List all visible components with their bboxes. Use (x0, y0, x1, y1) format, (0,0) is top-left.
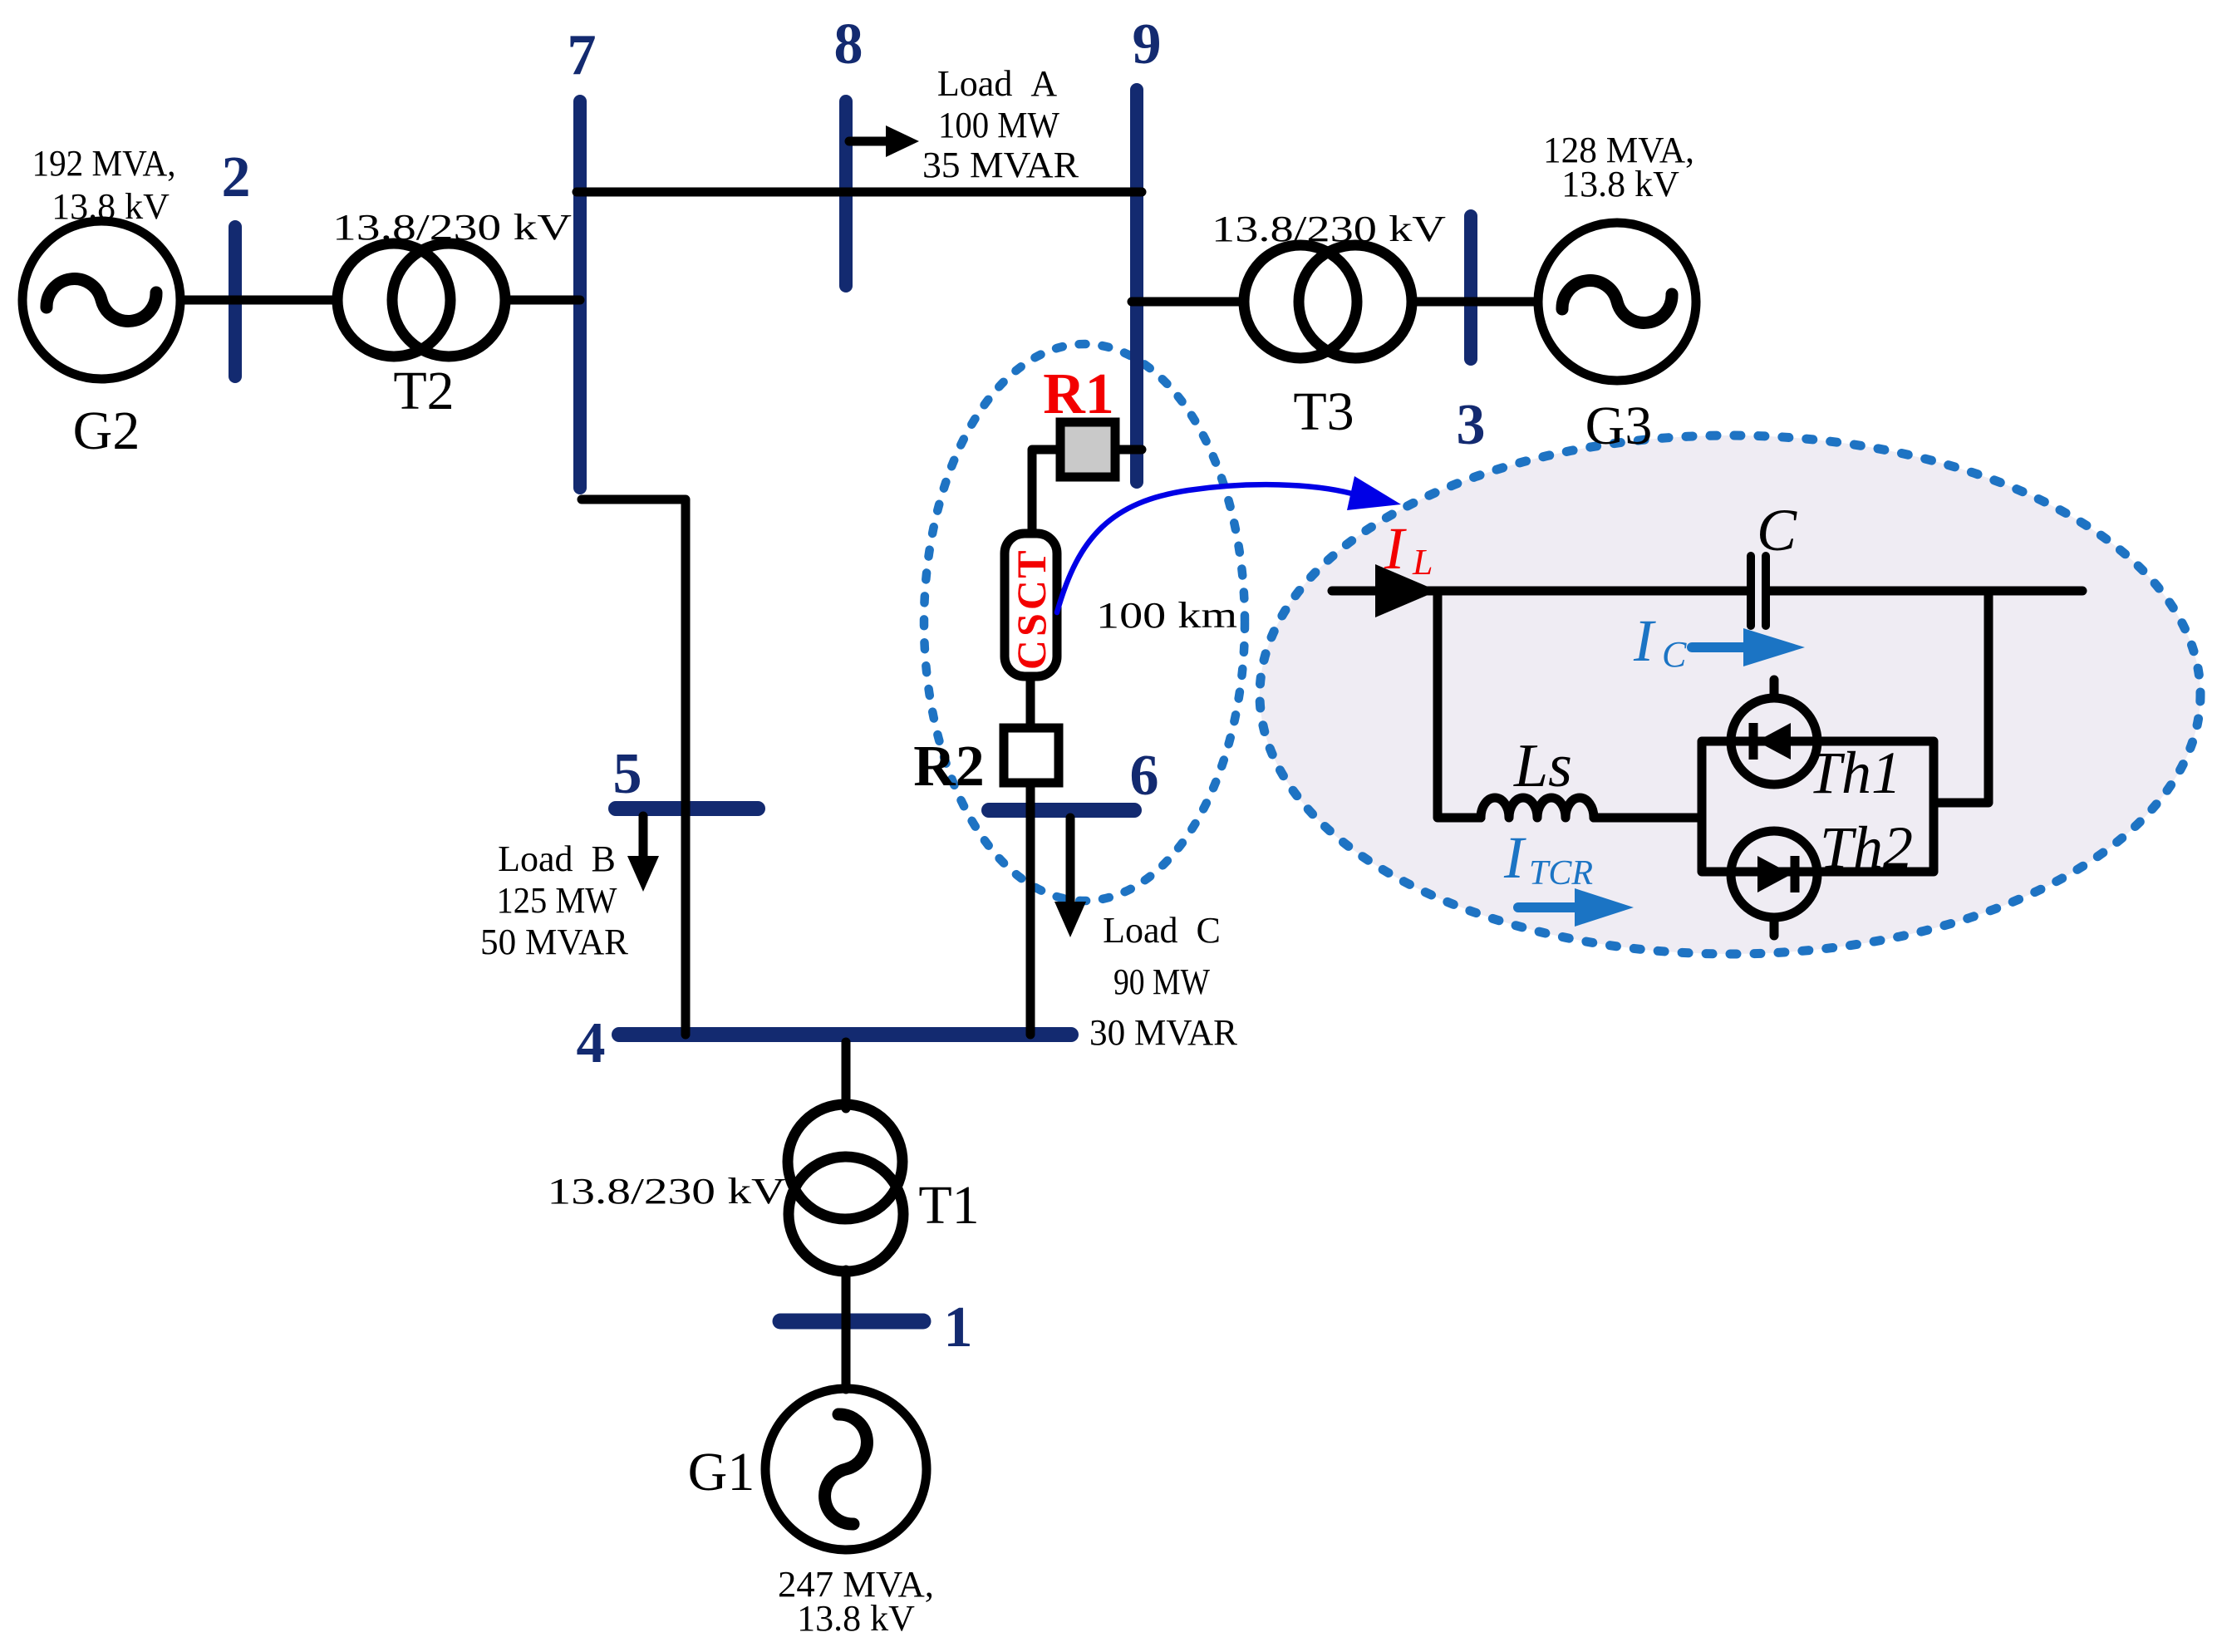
svg-text:T3: T3 (1293, 381, 1354, 442)
svg-text:13.8 kV: 13.8 kV (52, 186, 170, 227)
svg-text:T: T (1008, 550, 1054, 578)
svg-text:Load B: Load B (498, 838, 616, 879)
svg-text:Th2: Th2 (1820, 814, 1913, 881)
svg-text:9: 9 (1133, 12, 1162, 76)
svg-text:T1: T1 (918, 1175, 979, 1236)
svg-text:125 MW: 125 MW (497, 880, 617, 921)
svg-text:Load A: Load A (937, 63, 1057, 104)
svg-text:3: 3 (1457, 393, 1486, 457)
svg-text:G1: G1 (688, 1442, 755, 1502)
svg-text:L: L (1412, 542, 1433, 583)
svg-text:R1: R1 (1043, 362, 1114, 426)
svg-text:C: C (1008, 580, 1054, 610)
svg-text:35 MVAR: 35 MVAR (922, 145, 1079, 185)
svg-text:G3: G3 (1585, 396, 1653, 456)
svg-text:13.8/230 kV: 13.8/230 kV (332, 207, 572, 248)
svg-text:6: 6 (1130, 744, 1159, 808)
svg-text:13.8 kV: 13.8 kV (797, 1598, 915, 1639)
svg-text:R2: R2 (913, 735, 985, 799)
svg-text:Ls: Ls (1513, 732, 1572, 800)
svg-text:50 MVAR: 50 MVAR (480, 922, 629, 962)
svg-text:G2: G2 (73, 401, 140, 461)
svg-text:I: I (1384, 515, 1407, 582)
svg-text:13.8 kV: 13.8 kV (1561, 164, 1679, 204)
svg-text:5: 5 (613, 742, 642, 806)
svg-text:T2: T2 (393, 361, 454, 421)
svg-text:7: 7 (568, 23, 597, 87)
svg-text:TCR: TCR (1529, 854, 1593, 892)
svg-text:2: 2 (222, 145, 251, 209)
svg-text:100 km: 100 km (1096, 595, 1237, 636)
svg-text:Th1: Th1 (1808, 740, 1901, 806)
svg-text:C: C (1757, 497, 1797, 563)
svg-text:13.8/230 kV: 13.8/230 kV (548, 1171, 786, 1212)
svg-text:1: 1 (944, 1296, 973, 1359)
svg-text:8: 8 (834, 12, 863, 76)
svg-text:C: C (1662, 634, 1687, 675)
svg-text:90 MW: 90 MW (1113, 961, 1210, 1002)
svg-text:S: S (1008, 613, 1054, 637)
svg-text:C: C (1008, 640, 1054, 670)
svg-text:4: 4 (577, 1011, 606, 1075)
svg-text:192 MVA,: 192 MVA, (32, 143, 176, 184)
svg-text:I: I (1503, 824, 1526, 891)
svg-text:Load C: Load C (1103, 910, 1221, 951)
svg-text:100 MW: 100 MW (938, 105, 1059, 145)
svg-text:30 MVAR: 30 MVAR (1089, 1012, 1238, 1053)
svg-text:I: I (1633, 607, 1656, 674)
svg-text:13.8/230 kV: 13.8/230 kV (1212, 209, 1446, 249)
